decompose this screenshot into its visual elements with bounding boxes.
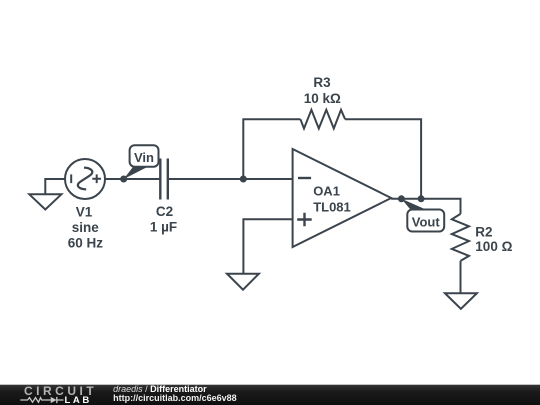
svg-text:R3: R3 bbox=[313, 75, 331, 90]
svg-text:C2: C2 bbox=[156, 204, 173, 219]
wire feedback top right and right vertical bbox=[345, 119, 421, 199]
svg-text:OA1: OA1 bbox=[313, 183, 340, 198]
voltage source V1 bbox=[65, 159, 105, 199]
node Vin junction dot bbox=[120, 176, 127, 183]
wire C2 to op-amp inverting input bbox=[168, 178, 293, 180]
svg-text:R2: R2 bbox=[475, 225, 492, 240]
wire op-amp output to R2 bbox=[391, 199, 460, 214]
junction dot feedback to output bbox=[418, 195, 425, 202]
wire R2 to ground bbox=[460, 261, 462, 293]
wire feedback left vertical bbox=[243, 119, 300, 179]
svg-text:100 Ω: 100 Ω bbox=[475, 239, 512, 254]
ground GND1 bbox=[29, 194, 61, 209]
resistor R3 bbox=[300, 110, 345, 129]
svg-text:V1: V1 bbox=[76, 205, 93, 220]
svg-text:Vin: Vin bbox=[134, 150, 154, 165]
svg-text:Vout: Vout bbox=[412, 215, 441, 230]
ground GND2 bbox=[227, 274, 259, 290]
junction dot feedback tap bbox=[240, 176, 247, 183]
svg-text:1 µF: 1 µF bbox=[150, 220, 177, 235]
wire V1 positive terminal to C2 bbox=[105, 178, 160, 180]
op-amp non-inverting input plus symbol bbox=[297, 213, 312, 227]
svg-text:10 kΩ: 10 kΩ bbox=[304, 91, 341, 106]
capacitor C2 bbox=[160, 159, 168, 200]
svg-text:60 Hz: 60 Hz bbox=[68, 235, 104, 250]
junction dot output Vout anchor bbox=[398, 195, 405, 202]
svg-text:LAB: LAB bbox=[65, 395, 92, 405]
node label Vout bbox=[401, 199, 444, 232]
op-amp OA1 triangle bbox=[293, 149, 392, 247]
node label Vin bbox=[124, 145, 159, 179]
wire non-inverting input to ground bbox=[243, 219, 292, 273]
op-amp inverting input minus symbol bbox=[298, 177, 311, 179]
wire V1 negative terminal to ground bbox=[45, 179, 65, 194]
resistor R2 bbox=[452, 214, 469, 261]
CircuitLab footer bar bbox=[0, 385, 540, 405]
svg-text:http://circuitlab.com/c6e6v88: http://circuitlab.com/c6e6v88 bbox=[113, 393, 237, 403]
CircuitLab logo resistor and diode glyph bbox=[20, 397, 63, 403]
svg-text:sine: sine bbox=[72, 220, 100, 235]
svg-text:TL081: TL081 bbox=[313, 199, 351, 214]
ground GND3 bbox=[445, 293, 477, 309]
